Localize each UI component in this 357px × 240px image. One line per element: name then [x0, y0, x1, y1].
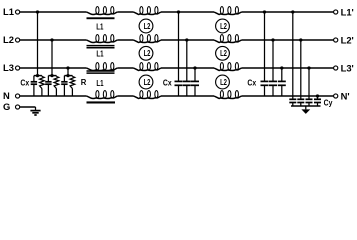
node junction row N Cy bank [316, 94, 319, 97]
svg-text:N': N' [341, 90, 350, 101]
wire Cy bottom rail [291, 105, 321, 107]
terminal L1' output [334, 10, 338, 14]
wire row L1 mid1 [117, 11, 133, 13]
capacitor Cx right 2 [272, 40, 274, 81]
node junction row L1 mid bank [177, 10, 180, 13]
resistor R1 [41, 75, 43, 78]
terminal L3' output [334, 66, 338, 70]
wire row N mid2 [161, 95, 214, 97]
terminal N' output [334, 94, 338, 98]
svg-text:L1: L1 [96, 22, 103, 32]
node junction row L3 right bank [280, 66, 283, 69]
node junction row L3 left bank [66, 66, 69, 69]
wire row L2 left [20, 39, 87, 41]
choke L2 winding-1 row L3 [134, 68, 162, 71]
wire row L2 right [242, 39, 334, 41]
svg-text:R: R [81, 78, 87, 87]
choke L2 symbol circle @y53.3 [139, 46, 153, 60]
svg-text:Cx: Cx [247, 78, 256, 88]
svg-text:L2: L2 [144, 22, 151, 31]
choke L2 winding-1 row N [134, 96, 162, 99]
choke L2 symbol circle @y82.0 [139, 75, 153, 89]
choke L2 winding-2 row N [214, 96, 242, 99]
svg-text:L3: L3 [3, 62, 14, 73]
capacitor Cx mid 2 [186, 40, 188, 81]
choke L2 symbol-2 circle @y26.0 [216, 19, 230, 33]
node junction row L3 mid bank [193, 66, 196, 69]
core lines L1 row L3 [87, 71, 115, 73]
wire row L3 mid2 [161, 67, 214, 69]
node junction row L3 Cy bank [307, 66, 310, 69]
wire row N mid1 [117, 95, 133, 97]
capacitor Cy 1 [292, 12, 294, 99]
capacitor Cx mid 3 [194, 68, 196, 81]
wire row N right [242, 95, 334, 97]
svg-text:L3': L3' [341, 62, 354, 73]
inductor L1 winding row N [87, 96, 118, 99]
core lines L1 row L2 [87, 46, 115, 48]
capacitor Cx1 [33, 76, 35, 82]
wire row L2 mid1 [117, 39, 133, 41]
svg-text:L1: L1 [96, 49, 103, 59]
capacitor Cy 2 [300, 40, 302, 99]
inductor L1 winding row L2 [87, 40, 118, 43]
ground earth symbol [35, 107, 37, 111]
wire row L1 left [20, 11, 87, 13]
wire row N left [20, 95, 87, 97]
node junction row L2 right bank [271, 38, 274, 41]
node junction row L2 Cy bank [299, 38, 302, 41]
node junction row L1 right bank [263, 10, 266, 13]
choke L2 winding-1 row L1 [134, 12, 162, 15]
choke L2 symbol-2 circle @y53.3 [216, 46, 230, 60]
ground chassis arrow [305, 106, 307, 109]
core bar L1 row L1 [87, 17, 115, 19]
node junction row L1 left bank [36, 10, 39, 13]
svg-text:L1: L1 [96, 78, 103, 88]
svg-text:L1': L1' [341, 6, 354, 17]
wire vertical from L2 to split [51, 40, 53, 76]
core bar L1 row N [87, 101, 116, 103]
svg-text:L2': L2' [341, 34, 354, 45]
node junction row L2 left bank [50, 38, 53, 41]
node split junction 2 [50, 74, 53, 77]
choke L2 symbol-2 circle @y82.0 [216, 75, 230, 89]
capacitor Cy 4 [317, 96, 319, 99]
capacitor Cx right 3 [281, 68, 283, 81]
choke L2 winding-1 row L2 [134, 40, 162, 43]
capacitor Cy 3 [308, 68, 310, 99]
inductor L1 winding row L1 [87, 12, 118, 15]
node split junction 1 [36, 74, 39, 77]
node junction row L2 mid bank [185, 38, 188, 41]
wire row L1 right [242, 11, 334, 13]
node junction row L1 Cy bank [291, 10, 294, 13]
node split junction 3 [66, 74, 69, 77]
svg-text:L2: L2 [220, 78, 227, 87]
wire split bar 1 [34, 75, 42, 77]
choke L2 symbol circle @y26.0 [139, 19, 153, 33]
wire row L3 right [242, 67, 334, 69]
svg-text:Cy: Cy [324, 98, 333, 108]
wire row L1 mid2 [161, 11, 214, 13]
choke L2 winding-2 row L1 [214, 12, 242, 15]
svg-text:G: G [3, 101, 10, 112]
wire row L2 mid2 [161, 39, 214, 41]
svg-text:L1: L1 [3, 6, 14, 17]
capacitor Cx2 [47, 76, 49, 82]
wire row L3 mid1 [117, 67, 133, 69]
capacitor Cx right 1 [264, 12, 266, 81]
svg-text:Cx: Cx [163, 78, 172, 88]
svg-text:Cx: Cx [20, 78, 29, 88]
wire vertical from L3 to split [67, 68, 69, 76]
wire split bar 2 [48, 75, 56, 77]
terminal L2' output [334, 38, 338, 42]
svg-text:L2: L2 [3, 34, 14, 45]
svg-text:L2: L2 [144, 49, 151, 58]
resistor R3 [71, 75, 73, 78]
wire vertical from L1 to split [37, 12, 39, 76]
svg-text:L2: L2 [220, 49, 227, 58]
inductor L1 winding row L3 [87, 68, 118, 71]
svg-text:L2: L2 [220, 22, 227, 31]
capacitor Cx3 [63, 76, 65, 82]
svg-text:N: N [3, 90, 10, 101]
choke L2 winding-2 row L2 [214, 40, 242, 43]
capacitor Cx mid 1 [178, 12, 180, 81]
wire row L3 left [20, 67, 87, 69]
wire G [20, 106, 36, 108]
wire split bar 3 [64, 75, 72, 77]
resistor R2 [55, 75, 57, 78]
svg-text:L2: L2 [144, 78, 151, 87]
choke L2 winding-2 row L3 [214, 68, 242, 71]
